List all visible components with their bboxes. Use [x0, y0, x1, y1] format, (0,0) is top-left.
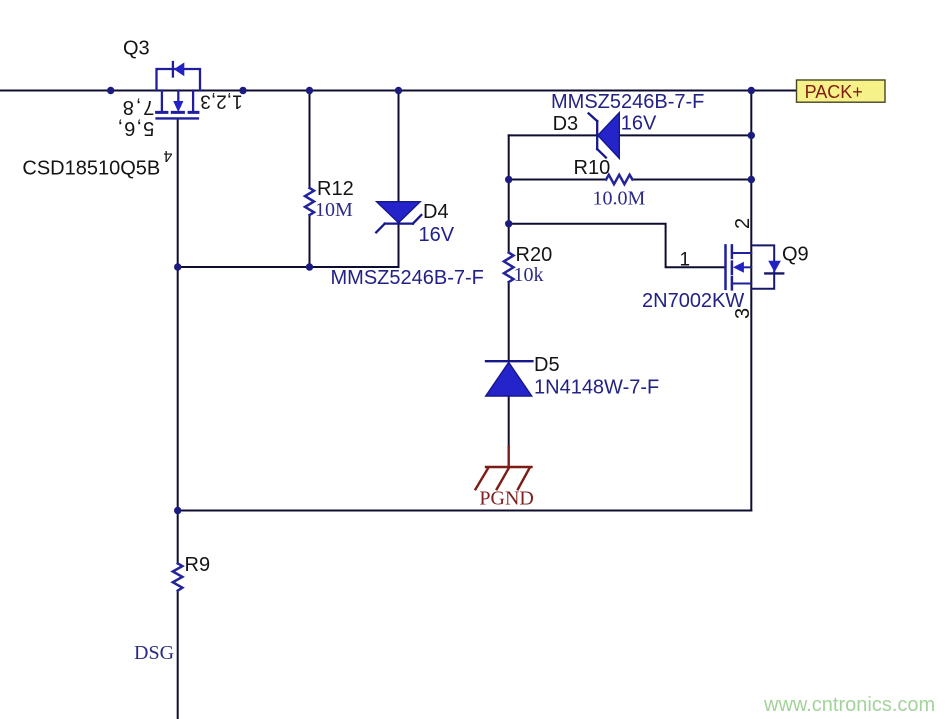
pin label 1,2,3 (rotated)	[200, 91, 242, 112]
pin label 2 (rotated)	[732, 218, 754, 229]
value 16V (D4)	[419, 224, 455, 246]
svg-text:R10: R10	[574, 157, 611, 179]
pin label 4 (rotated)	[163, 147, 172, 164]
label R10	[574, 157, 611, 179]
pin label 3 (rotated)	[732, 308, 754, 319]
label 1N4148W-7-F	[534, 376, 659, 398]
svg-text:PACK+: PACK+	[805, 82, 863, 102]
junction top rail A	[107, 87, 114, 94]
svg-text:5,6,: 5,6,	[117, 117, 155, 139]
wire R10 row	[509, 179, 752, 181]
wire D3 row	[509, 134, 752, 136]
svg-text:10.0M: 10.0M	[593, 188, 646, 210]
junction R10 row right	[748, 176, 755, 183]
value 10k	[514, 264, 544, 286]
ground PGND symbol	[476, 447, 532, 490]
svg-text:Q9: Q9	[782, 244, 809, 266]
svg-text:3: 3	[732, 308, 754, 319]
label R20	[516, 244, 553, 266]
label D3	[553, 113, 579, 135]
transistor Q3 body diode	[157, 62, 201, 91]
svg-text:MMSZ5246B-7-F: MMSZ5246B-7-F	[551, 91, 704, 113]
svg-text:2: 2	[732, 218, 754, 229]
svg-text:www.cntronics.com: www.cntronics.com	[763, 694, 935, 716]
net label PGND	[479, 488, 533, 510]
watermark www.cntronics.com	[763, 694, 935, 716]
node PACK+ flag	[797, 80, 886, 102]
svg-text:DSG: DSG	[134, 642, 174, 664]
resistor R12	[305, 188, 314, 215]
junction gate row left	[174, 263, 181, 270]
junction top rail / D4	[395, 87, 402, 94]
label 2N7002KW	[642, 290, 744, 312]
net label DSG	[134, 642, 174, 664]
svg-text:D3: D3	[553, 113, 579, 135]
junction R10 row left	[505, 176, 512, 183]
svg-text:16V: 16V	[621, 113, 657, 135]
wire Q3 gate down	[177, 120, 179, 267]
transistor Q9 MOSFET symbol	[726, 245, 752, 289]
svg-text:CSD18510Q5B: CSD18510Q5B	[22, 157, 160, 179]
junction Q9 gate branch	[505, 220, 512, 227]
junction top rail / R12	[306, 87, 313, 94]
junction top rail / Q9 drain	[748, 87, 755, 94]
wire Q9 drain-source vertical	[750, 91, 752, 511]
zener diode D3	[589, 113, 620, 159]
wire bottom rail	[178, 510, 752, 512]
value 10M	[315, 199, 353, 221]
transistor Q3 MOSFET symbol	[157, 91, 198, 119]
value 16V (D3)	[621, 113, 657, 135]
label R12	[317, 178, 354, 200]
svg-text:1: 1	[680, 250, 691, 271]
pin label 5,6, (rotated)	[117, 117, 155, 139]
pin label 1	[680, 250, 691, 271]
svg-text:2N7002KW: 2N7002KW	[642, 290, 744, 312]
svg-text:7,8: 7,8	[121, 96, 155, 118]
wire left vertical DSG net	[177, 267, 179, 719]
label Q3	[123, 38, 150, 60]
label MMSZ5246B-7-F (D4)	[331, 267, 484, 289]
svg-text:1,2,3: 1,2,3	[200, 91, 242, 112]
wire Q9 gate link	[509, 224, 725, 267]
wire horizontal gate row	[178, 266, 399, 268]
svg-text:4: 4	[163, 147, 172, 164]
diode D5	[486, 361, 533, 396]
svg-text:16V: 16V	[419, 224, 455, 246]
svg-text:D4: D4	[423, 201, 449, 223]
svg-text:R12: R12	[317, 178, 354, 200]
junction bottom rail / R9	[174, 507, 181, 514]
wire mid vertical D5 net	[508, 135, 510, 446]
svg-text:1N4148W-7-F: 1N4148W-7-F	[534, 376, 659, 398]
label Q9	[782, 244, 809, 266]
svg-text:R9: R9	[185, 554, 211, 576]
wire top rail PACK+ net	[0, 90, 797, 92]
label R9	[185, 554, 211, 576]
svg-text:PGND: PGND	[479, 488, 533, 510]
svg-text:D5: D5	[534, 354, 560, 376]
resistor R9	[173, 563, 183, 590]
junction top rail B	[239, 87, 246, 94]
wire R12 branch	[309, 91, 311, 268]
resistor R10	[606, 175, 632, 184]
label D4	[423, 201, 449, 223]
resistor R20	[504, 253, 514, 282]
svg-text:MMSZ5246B-7-F: MMSZ5246B-7-F	[331, 267, 484, 289]
transistor Q9 body diode	[751, 245, 783, 288]
zener diode D4	[376, 202, 421, 233]
svg-text:10k: 10k	[514, 264, 544, 286]
junction gate row / R12	[306, 263, 313, 270]
wire D4 branch	[398, 91, 400, 268]
value 10.0M	[593, 188, 646, 210]
svg-text:10M: 10M	[315, 199, 353, 221]
label MMSZ5246B-7-F (D3)	[551, 91, 704, 113]
svg-text:R20: R20	[516, 244, 553, 266]
pin label 7,8 (rotated)	[121, 96, 155, 118]
label CSD18510Q5B	[22, 157, 160, 179]
junction D3 row right	[748, 132, 755, 139]
svg-text:Q3: Q3	[123, 38, 150, 60]
label D5	[534, 354, 560, 376]
